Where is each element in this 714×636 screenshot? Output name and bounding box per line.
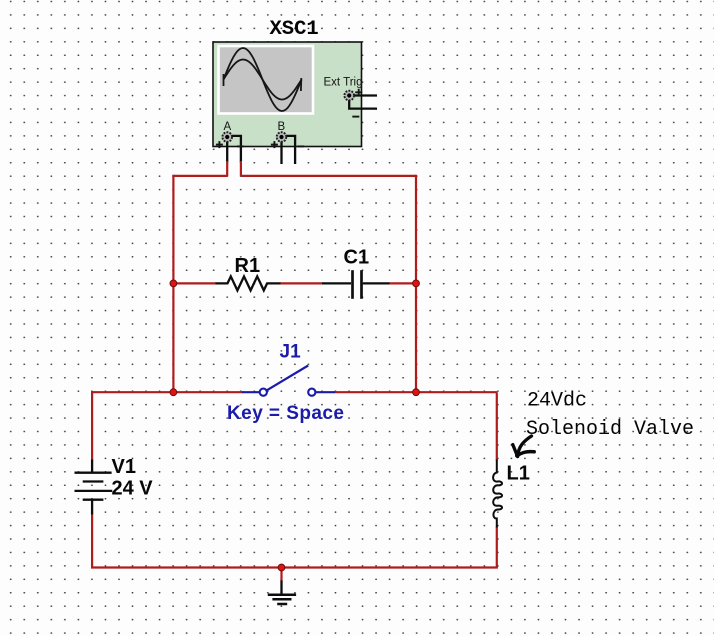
svg-text:C1: C1 — [344, 247, 370, 269]
svg-text:J1: J1 — [280, 341, 302, 362]
svg-text:24Vdc: 24Vdc — [527, 389, 587, 412]
svg-text:A: A — [224, 121, 232, 133]
svg-text:B: B — [278, 121, 286, 133]
svg-text:L1: L1 — [507, 462, 530, 484]
svg-text:Key = Space: Key = Space — [227, 403, 344, 424]
svg-text:V1: V1 — [112, 456, 136, 478]
svg-text:Ext Trig: Ext Trig — [324, 76, 363, 88]
svg-text:R1: R1 — [235, 255, 261, 277]
svg-text:XSC1: XSC1 — [270, 18, 319, 41]
svg-text:24 V: 24 V — [112, 478, 154, 500]
svg-text:Solenoid Valve: Solenoid Valve — [526, 418, 694, 441]
